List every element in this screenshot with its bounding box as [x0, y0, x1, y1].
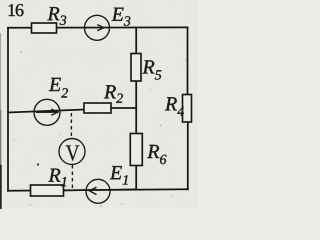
- voltage source E3: [85, 15, 110, 40]
- voltage source E1: [64, 179, 136, 203]
- page number 16: [9, 4, 24, 16]
- resistor R1: [31, 185, 64, 196]
- stray dot: [37, 163, 39, 165]
- wire center branch mid: [135, 81, 137, 134]
- wire right frame upper: [187, 27, 189, 94]
- scan edge artifact: [0, 33, 2, 110]
- resistor R6: [130, 134, 142, 166]
- wire middle row left: [8, 110, 84, 113]
- wire bottom frame: [8, 189, 188, 191]
- wire middle row right: [111, 107, 136, 109]
- paper background: [0, 0, 198, 209]
- wire center branch bottom: [135, 166, 137, 190]
- wire top frame: [8, 26, 188, 28]
- voltage source E2: [34, 99, 60, 125]
- dashed link upper: [70, 113, 72, 137]
- resistor R3: [32, 23, 57, 33]
- resistor R5: [131, 54, 141, 82]
- voltmeter V: [59, 139, 85, 165]
- resistor R4: [183, 95, 192, 123]
- dashed link lower: [71, 165, 73, 190]
- resistor R2: [84, 103, 111, 113]
- wire center branch top: [135, 28, 137, 54]
- wire right frame lower: [187, 122, 189, 189]
- wire left frame: [7, 28, 9, 191]
